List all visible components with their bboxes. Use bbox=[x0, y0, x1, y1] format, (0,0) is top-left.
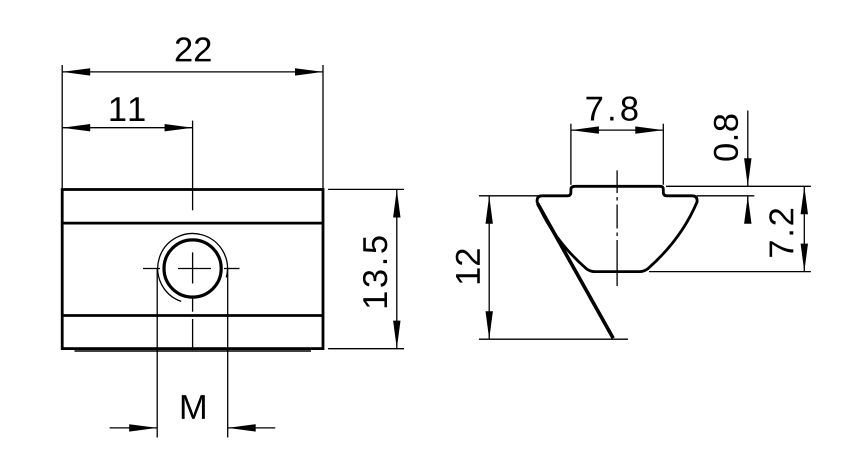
slot edge line lower bbox=[62, 314, 323, 317]
nut body outline bbox=[62, 190, 323, 349]
dimension 13.5: dimension line bbox=[396, 190, 398, 349]
thread arc bbox=[158, 234, 228, 302]
dimension 12: extension line bottom (spring tip level) bbox=[479, 338, 628, 340]
dimension 7.8: extension line right bbox=[662, 124, 664, 185]
dimension 12: text label bbox=[456, 249, 480, 283]
threaded hole circle bbox=[164, 240, 221, 297]
dimension 7.2: dimension line bbox=[803, 186, 805, 271]
dimension 22: extension line left bbox=[61, 65, 63, 190]
slot edge line upper bbox=[62, 222, 323, 225]
dimension 12: bottom arrowhead bbox=[486, 311, 493, 339]
vertical centerline segment 1 (also extension of dim 11) bbox=[192, 121, 194, 211]
vertical centerline segment 2 bbox=[192, 252, 194, 283]
dimension M: text label bbox=[182, 395, 205, 419]
dimension 0.8: upper arrowhead pointing down bbox=[744, 158, 751, 186]
nut profile outline bbox=[537, 186, 697, 271]
dimension 0.8: dimension line lower segment bbox=[747, 196, 749, 221]
dimension 0.8: text label bbox=[714, 115, 738, 161]
dimension 22: dimension line bbox=[62, 71, 323, 73]
top flat level extension line (for 0.8 and 7.2) bbox=[666, 185, 811, 187]
dimension M: dimension line right bbox=[228, 427, 276, 429]
dimension 22: right arrowhead bbox=[295, 68, 323, 75]
dimension 0.8: dimension line upper segment bbox=[747, 111, 749, 187]
horizontal centerline segment 1 bbox=[143, 268, 160, 270]
dimension 13.5: extension line bottom bbox=[328, 348, 404, 350]
dimension M: dimension line left bbox=[110, 427, 158, 429]
dimension 7.8: dimension line bbox=[571, 129, 663, 131]
dimension 13.5: extension line top bbox=[328, 188, 404, 190]
vertical centerline segment 4 bbox=[192, 319, 194, 349]
dimension M: extension line left bbox=[156, 269, 158, 438]
dimension 0.8: lower arrowhead pointing up bbox=[744, 196, 751, 224]
dimension 7.8: extension line left bbox=[570, 124, 572, 185]
dimension 22: left arrowhead bbox=[62, 68, 90, 75]
dimension 22: text label bbox=[176, 37, 211, 61]
dimension 13.5: top arrowhead bbox=[393, 190, 400, 218]
bottom flat level extension line (for 7.2) bbox=[649, 271, 811, 273]
dimension 7.2: text label bbox=[769, 209, 793, 257]
dimension 7.2: bottom arrowhead bbox=[801, 244, 808, 272]
dimension 13.5: text label bbox=[363, 236, 387, 307]
dimension 12: dimension line bbox=[488, 196, 490, 339]
dimension 11: left arrowhead bbox=[62, 124, 90, 131]
dimension 7.2: top arrowhead bbox=[801, 186, 808, 214]
bottom chamfer line bbox=[75, 350, 312, 352]
dimension 11: text label bbox=[110, 97, 144, 121]
shoulder level extension line (for 0.8) bbox=[697, 195, 755, 197]
dimension 11: dimension line bbox=[62, 127, 192, 129]
dimension 12: top arrowhead bbox=[486, 196, 493, 224]
horizontal centerline segment 3 bbox=[224, 268, 240, 270]
dimension 12: extension line top bbox=[479, 195, 540, 197]
side view vertical centerline bbox=[616, 170, 618, 286]
horizontal centerline segment 2 bbox=[178, 268, 211, 270]
leaf spring bbox=[538, 204, 614, 339]
dimension 13.5: bottom arrowhead bbox=[393, 321, 400, 349]
dimension 7.8: right arrowhead bbox=[635, 126, 663, 133]
dimension 11: right arrowhead bbox=[165, 124, 193, 131]
dimension M: left arrowhead bbox=[129, 424, 157, 431]
dimension M: extension line right bbox=[227, 269, 229, 438]
dimension 7.8: text label bbox=[586, 96, 637, 120]
dimension 22: extension line right bbox=[322, 65, 324, 190]
dimension 7.8: left arrowhead bbox=[571, 126, 599, 133]
vertical centerline segment 3 bbox=[192, 295, 194, 311]
dimension M: right arrowhead bbox=[228, 424, 256, 431]
